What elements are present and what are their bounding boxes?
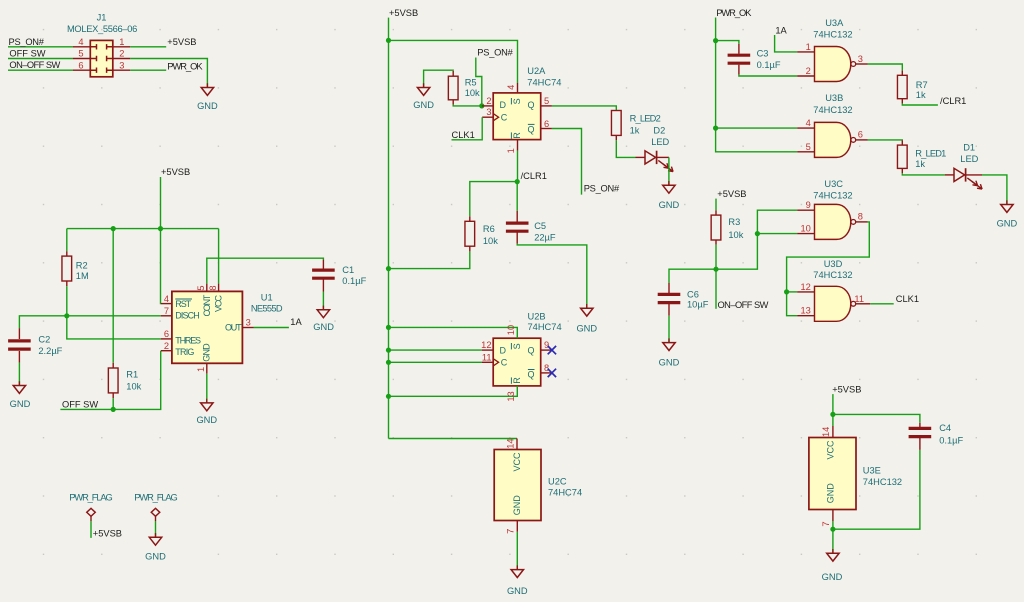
wire ON-OFF SW label stub	[715, 269, 717, 309]
svg-text:GND: GND	[145, 551, 166, 561]
svg-text:C: C	[501, 358, 508, 368]
svg-text:C1: C1	[342, 265, 354, 275]
svg-text:PWR_OK: PWR_OK	[716, 8, 752, 18]
svg-text:LED: LED	[651, 137, 669, 147]
svg-text:2: 2	[486, 96, 491, 106]
svg-text:R2: R2	[76, 260, 88, 270]
wire U2A Qbar to PS_ON#	[552, 129, 582, 195]
label ON-OFF SW	[718, 300, 769, 310]
svg-text:10: 10	[800, 224, 810, 234]
node R3 junction	[713, 267, 718, 272]
wire J1 pin 1 to +5VSB	[130, 46, 166, 48]
nand gate U3A 74HC132	[813, 18, 855, 82]
U1 pin stubs	[161, 284, 254, 374]
svg-text:/CLR1: /CLR1	[521, 171, 547, 181]
svg-text:R6: R6	[483, 224, 495, 234]
svg-text:74HC132: 74HC132	[863, 477, 902, 487]
U2A pin numbers	[486, 85, 549, 154]
wire U2C GND pin	[516, 521, 518, 570]
svg-text:GND: GND	[826, 483, 836, 504]
wire PS_ON# to J1 pin 4	[8, 46, 73, 48]
svg-text:8: 8	[858, 212, 863, 222]
svg-text:C: C	[501, 113, 508, 123]
svg-text:U2A: U2A	[527, 66, 546, 76]
svg-text:9: 9	[806, 200, 811, 210]
svg-text:VCC: VCC	[214, 294, 224, 312]
svg-text:10k: 10k	[465, 88, 480, 98]
U2B pin stubs	[482, 350, 552, 373]
svg-text:PS_ON#: PS_ON#	[9, 37, 45, 47]
U2B pin names	[500, 343, 535, 384]
svg-text:74HC132: 74HC132	[813, 105, 852, 115]
svg-text:4: 4	[78, 37, 83, 47]
svg-text:D: D	[500, 100, 507, 110]
svg-text:9: 9	[544, 340, 549, 350]
svg-text:U1: U1	[261, 292, 273, 302]
capacitor C5	[506, 182, 587, 308]
svg-text:C4: C4	[939, 423, 951, 433]
ground at R5	[413, 83, 434, 110]
U2B pin numbers	[481, 325, 549, 402]
wire DISCH to C2	[19, 316, 161, 328]
svg-text:CLK1: CLK1	[896, 294, 919, 304]
ground below U1	[196, 399, 217, 425]
svg-text:3: 3	[119, 60, 124, 70]
svg-text:OFF SW: OFF SW	[62, 399, 98, 409]
svg-text:C3: C3	[757, 48, 769, 58]
wire to ground below U3E	[832, 529, 834, 553]
wire U3D output to CLK1	[870, 303, 893, 305]
wire ON-OFF SW to J1 pin 6	[8, 69, 73, 71]
svg-text:GND: GND	[313, 322, 334, 332]
svg-text:6: 6	[858, 130, 863, 140]
power flag PWR_FLAG +5VSB	[69, 493, 112, 538]
capacitor C3	[716, 41, 798, 76]
wire CLK1 to U2A C	[452, 117, 483, 140]
wire OUT to 1A label	[254, 327, 289, 329]
wire U3C output to U3D inputs	[784, 222, 869, 316]
svg-text:R_LED2: R_LED2	[630, 114, 661, 124]
svg-text:5: 5	[806, 142, 811, 152]
svg-text:74HC132: 74HC132	[813, 191, 852, 201]
svg-text:GND: GND	[413, 100, 434, 110]
resistor R2	[62, 229, 89, 316]
label PWR_OK top right	[716, 8, 752, 18]
svg-text:GND: GND	[822, 572, 843, 582]
U1 pin numbers	[164, 285, 251, 372]
resistor R3	[711, 199, 744, 270]
label ON-OFF SW	[9, 60, 60, 70]
svg-text:Q: Q	[527, 124, 534, 134]
wire rail to U2B pin 13	[386, 386, 517, 399]
svg-text:D1: D1	[963, 143, 975, 153]
wire J1 pin 3 to PWR_OK	[130, 69, 166, 71]
svg-text:LED: LED	[960, 154, 978, 164]
svg-text:C6: C6	[687, 289, 699, 299]
svg-text:GND: GND	[197, 101, 218, 111]
wire U2A Q to R_LED2	[552, 106, 616, 111]
power +5VSB above U3E	[832, 385, 861, 415]
op-amp U1 NE555D body	[172, 291, 283, 363]
ground below C5	[576, 304, 597, 334]
wire U3D pin 12	[787, 291, 798, 293]
svg-text:PS_ON#: PS_ON#	[477, 48, 513, 58]
svg-text:74HC74: 74HC74	[528, 322, 562, 332]
wire +5VSB to U2A pin 4	[386, 38, 518, 83]
label PS_ON# above U2A	[477, 48, 513, 58]
svg-text:12: 12	[481, 340, 491, 350]
svg-text:S: S	[512, 98, 522, 104]
U3B pin numbers	[806, 118, 863, 152]
wire U1 GND pin	[206, 374, 208, 403]
svg-text:+5VSB: +5VSB	[832, 385, 861, 395]
label CLK1 at U2A clock	[452, 130, 475, 140]
capacitor C6	[658, 269, 716, 342]
svg-text:1: 1	[196, 367, 206, 372]
svg-text:0.1µF: 0.1µF	[757, 60, 781, 70]
svg-text:CLK1: CLK1	[452, 130, 475, 140]
svg-text:3: 3	[858, 54, 863, 64]
svg-text:U2C: U2C	[548, 476, 567, 486]
ground below C2	[10, 381, 31, 409]
svg-text:+5VSB: +5VSB	[167, 37, 196, 47]
svg-text:4: 4	[164, 294, 169, 304]
svg-text:GND: GND	[659, 357, 680, 367]
svg-text:VCC: VCC	[826, 440, 836, 460]
svg-text:0.1µF: 0.1µF	[342, 276, 366, 286]
ground below D1	[997, 200, 1018, 228]
U3C pin stubs	[797, 210, 867, 233]
ground below U2C	[507, 565, 528, 596]
svg-text:VCC: VCC	[512, 452, 522, 472]
svg-text:R1: R1	[126, 370, 138, 380]
flip-flop U2B 74HC74	[493, 311, 561, 386]
svg-text:D: D	[500, 345, 507, 355]
svg-text:GND: GND	[659, 200, 680, 210]
power +5VSB top center	[389, 8, 419, 41]
svg-text:2: 2	[164, 341, 169, 351]
label +5VSB above R3	[717, 189, 746, 199]
svg-text:14: 14	[506, 438, 516, 448]
svg-text:U3D: U3D	[824, 259, 843, 269]
wire rail to U2B C	[386, 360, 482, 365]
U3C pin numbers	[800, 200, 863, 233]
resistor R_LED2	[611, 111, 660, 158]
U2A pin stubs	[482, 83, 552, 151]
wire PWR_OK to U3B pin 4	[716, 127, 798, 129]
ground at PWR_FLAG	[145, 533, 166, 561]
svg-text:13: 13	[506, 391, 516, 401]
wire U3C pin 10	[757, 233, 797, 235]
svg-text:CONT: CONT	[202, 294, 212, 316]
svg-text:+5VSB: +5VSB	[389, 8, 418, 18]
wire OFF SW to TRIG	[60, 351, 160, 412]
svg-text:+5VSB: +5VSB	[717, 189, 746, 199]
nand gate U3B 74HC132	[813, 93, 855, 157]
LED D1	[945, 143, 982, 190]
svg-text:13: 13	[800, 306, 810, 316]
nand gate U3C 74HC132	[813, 179, 855, 240]
svg-text:GND: GND	[576, 324, 597, 334]
svg-text:1: 1	[806, 42, 811, 52]
wire D2 to ground	[668, 157, 670, 185]
node rail junction R6	[386, 266, 391, 271]
svg-text:U3C: U3C	[824, 179, 843, 189]
power unit U2C 74HC74	[494, 439, 582, 521]
ground below D2	[659, 181, 680, 210]
wire CONT to C1	[207, 258, 324, 283]
wire rail to U2B pin 10	[386, 325, 517, 338]
capacitor C2	[8, 328, 63, 385]
label PS_ON#	[9, 37, 45, 47]
wire 1A to U3A pin 1	[775, 35, 798, 52]
wire THRES	[67, 316, 161, 339]
capacitor C1	[312, 260, 366, 310]
wire +5VSB rail of U1	[67, 226, 219, 284]
svg-text:D2: D2	[653, 126, 665, 136]
label 1A at U3A input	[775, 26, 787, 36]
wire OFF SW to J1 pin 5	[8, 58, 73, 60]
svg-text:10k: 10k	[728, 230, 743, 240]
label +5VSB at J1 pin 1	[167, 37, 196, 47]
svg-text:U2B: U2B	[528, 311, 546, 321]
svg-text:2: 2	[119, 49, 124, 59]
node U3E GND junction	[830, 527, 835, 532]
label CLK1 at U3D output	[896, 294, 919, 304]
svg-text:GND: GND	[196, 415, 217, 425]
svg-text:2.2µF: 2.2µF	[38, 346, 62, 356]
resistor R1	[108, 229, 141, 410]
svg-text:74HC132: 74HC132	[813, 29, 852, 39]
svg-text:1: 1	[506, 148, 516, 153]
svg-text:Q: Q	[527, 369, 534, 379]
svg-text:8: 8	[544, 363, 549, 373]
svg-text:C2: C2	[38, 335, 50, 345]
svg-text:10k: 10k	[126, 382, 141, 392]
U3A pin stubs	[797, 52, 867, 76]
svg-text:22µF: 22µF	[534, 232, 556, 242]
svg-text:GND: GND	[10, 399, 31, 409]
svg-text:Q: Q	[527, 100, 534, 110]
svg-text:6: 6	[544, 119, 549, 129]
svg-text:DISCH: DISCH	[175, 311, 199, 321]
svg-text:14: 14	[821, 427, 831, 437]
svg-text:6: 6	[78, 60, 83, 70]
resistor R7	[868, 64, 938, 105]
svg-text:5: 5	[78, 49, 83, 59]
svg-text:+5VSB: +5VSB	[93, 529, 122, 539]
svg-text:GND: GND	[997, 218, 1018, 228]
wire +5VSB rail down	[388, 40, 390, 438]
svg-text:8: 8	[208, 285, 218, 290]
svg-text:1A: 1A	[290, 317, 302, 327]
wire U3E GND pin	[832, 510, 834, 530]
svg-text:J1: J1	[97, 13, 107, 23]
U1 pin names	[175, 294, 242, 362]
resistor R6	[389, 182, 518, 269]
capacitor C4	[833, 414, 964, 529]
connector J1 MOLEX_5566-06	[67, 13, 137, 77]
U3D pin numbers	[800, 282, 864, 316]
ground below C1	[313, 306, 334, 332]
ground below U3E	[822, 549, 843, 582]
svg-text:PWR_FLAG: PWR_FLAG	[134, 493, 177, 503]
svg-text:10µF: 10µF	[687, 300, 709, 310]
U3E pin numbers	[821, 427, 831, 527]
svg-text:6: 6	[164, 329, 169, 339]
svg-text:11: 11	[854, 294, 864, 304]
svg-text:RST: RST	[175, 299, 191, 309]
svg-text:4: 4	[506, 85, 516, 90]
svg-text:4: 4	[806, 118, 811, 128]
power flag PWR_FLAG GND	[134, 493, 177, 538]
wire rail to U2B D	[386, 348, 482, 353]
U3A pin numbers	[806, 42, 863, 76]
svg-text:5: 5	[544, 96, 549, 106]
svg-text:PWR_FLAG: PWR_FLAG	[69, 493, 112, 503]
nand gate U3D 74HC132	[813, 259, 855, 321]
no-connect U2B Qbar	[548, 369, 556, 377]
svg-text:R: R	[512, 377, 522, 384]
svg-text:1A: 1A	[775, 26, 787, 36]
node U3E VCC junction	[830, 412, 835, 417]
wire RST from +5VSB	[160, 229, 162, 304]
svg-text:R_LED1: R_LED1	[915, 148, 946, 158]
svg-text:PS_ON#: PS_ON#	[584, 184, 620, 194]
svg-text:MOLEX_5566–06: MOLEX_5566–06	[67, 24, 137, 34]
svg-text:74HC132: 74HC132	[813, 270, 852, 280]
svg-text:GND: GND	[512, 495, 522, 516]
svg-text:1k: 1k	[916, 90, 926, 100]
svg-text:1: 1	[119, 37, 124, 47]
svg-text:7: 7	[506, 529, 516, 534]
svg-text:ON–OFF SW: ON–OFF SW	[718, 300, 769, 310]
svg-text:7: 7	[821, 521, 831, 526]
U2A pin names	[500, 98, 535, 139]
svg-text:5: 5	[196, 285, 206, 290]
no-connect U2B Q	[548, 346, 556, 354]
svg-text:NE555D: NE555D	[251, 304, 283, 314]
label PS_ON# below	[584, 184, 620, 194]
LED D2	[636, 126, 674, 172]
svg-text:+5VSB: +5VSB	[161, 167, 190, 177]
label OFF SW	[9, 48, 45, 58]
wire PS_ON# to U2A D	[476, 58, 485, 109]
svg-text:R7: R7	[916, 80, 928, 90]
wire J1 pin 2 to ground	[130, 59, 207, 88]
svg-text:U3A: U3A	[825, 18, 844, 28]
wire junction to U3C inputs	[716, 210, 797, 269]
svg-text:10: 10	[506, 325, 516, 335]
svg-text:3: 3	[246, 318, 251, 328]
wire U2A pin1 to CLR1 node	[517, 151, 519, 182]
label PWR_OK at J1 pin 3	[167, 62, 203, 72]
svg-text:TRIG: TRIG	[175, 347, 194, 357]
svg-text:0.1µF: 0.1µF	[939, 435, 963, 445]
svg-text:S: S	[512, 343, 522, 349]
svg-text:U3B: U3B	[825, 93, 843, 103]
flip-flop U2A 74HC74	[493, 66, 561, 140]
svg-text:11: 11	[482, 352, 492, 362]
svg-text:7: 7	[164, 306, 169, 316]
svg-text:THRES: THRES	[175, 336, 201, 346]
svg-text:2: 2	[806, 66, 811, 76]
wire rail to U2C VCC	[389, 438, 518, 440]
svg-text:1k: 1k	[915, 159, 925, 169]
svg-text:U3E: U3E	[863, 466, 881, 476]
node /CLR1 junction	[515, 171, 547, 184]
svg-text:ON–OFF SW: ON–OFF SW	[9, 60, 60, 70]
svg-text:74HC74: 74HC74	[548, 487, 582, 497]
pin numbers J1	[78, 37, 124, 70]
power +5VSB above U1	[161, 167, 191, 228]
svg-text:10k: 10k	[483, 236, 498, 246]
svg-text:/CLR1: /CLR1	[940, 96, 966, 106]
label +5VSB at PWR_FLAG	[93, 529, 122, 539]
svg-text:1M: 1M	[76, 271, 89, 281]
svg-text:GND: GND	[202, 343, 212, 362]
ground at J1 pin 2	[197, 83, 218, 111]
label /CLR1 at R7	[940, 96, 966, 106]
svg-text:C5: C5	[534, 221, 546, 231]
svg-text:R: R	[512, 132, 522, 139]
resistor R5	[424, 70, 482, 106]
svg-text:Q: Q	[527, 345, 534, 355]
power unit U3E 74HC132	[809, 414, 902, 509]
svg-text:3: 3	[486, 107, 491, 117]
svg-text:OFF SW: OFF SW	[9, 48, 45, 58]
svg-text:12: 12	[800, 282, 810, 292]
svg-text:1k: 1k	[630, 126, 640, 136]
wire PWR_OK rail	[713, 18, 797, 152]
svg-text:74HC74: 74HC74	[527, 78, 561, 88]
U3B pin stubs	[797, 128, 867, 152]
svg-text:GND: GND	[507, 586, 528, 596]
U2C pin numbers	[506, 438, 516, 533]
wire D1 to ground	[982, 175, 1007, 205]
label OFF SW	[62, 399, 98, 409]
node DISCH junction	[64, 313, 69, 318]
resistor R_LED1	[868, 140, 947, 175]
U3D pin stubs	[797, 292, 870, 316]
svg-text:R5: R5	[465, 77, 477, 87]
label 1A at OUT	[290, 317, 302, 327]
svg-text:R3: R3	[728, 217, 740, 227]
svg-text:OUT: OUT	[225, 323, 242, 333]
ground below C6	[659, 338, 680, 367]
svg-text:PWR_OK: PWR_OK	[167, 62, 203, 72]
